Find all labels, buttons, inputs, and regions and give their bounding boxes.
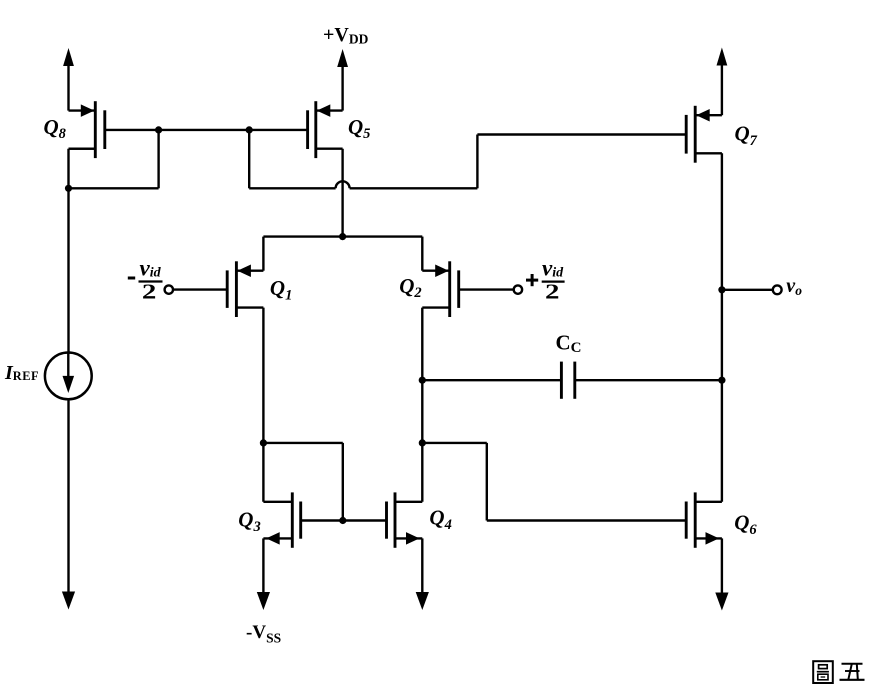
transistor Q4 (NMOS) <box>387 492 423 547</box>
caption character 五 <box>842 663 863 665</box>
wire Q6 gate jog horizontal to gate bar <box>487 519 686 521</box>
junction dot output node vo <box>718 286 725 293</box>
power +VDD arrow above Q7 <box>717 48 728 66</box>
wire CC right <box>575 379 722 381</box>
transistor Q5 (PMOS) <box>308 101 343 158</box>
junction dot Q1/Q3 drain node <box>260 439 267 446</box>
label -vid/2 (fraction bar) <box>139 280 163 282</box>
label +vid/2 (plus sign) <box>526 279 538 282</box>
wire tail rail <box>263 235 422 237</box>
wire Q1 gate lead <box>173 288 227 290</box>
wire Q6 gate jog horizontal upper <box>422 442 487 444</box>
terminal open circle -vid/2 input <box>165 285 173 293</box>
junction dot bias line right <box>246 126 253 133</box>
transistor Q3 (NMOS) <box>263 492 300 547</box>
wire Q1 source stub <box>262 237 264 271</box>
wire bias drop from gate line <box>248 130 250 188</box>
power +VDD arrow above Q5 <box>337 49 348 67</box>
wire Q3 diode jog vertical <box>342 443 344 521</box>
transistor Q2 (PMOS) <box>422 261 458 317</box>
wire bias jog horizontal right of hop <box>350 187 478 189</box>
label -vid/2 (minus sign) <box>128 277 135 280</box>
junction dot bias line left <box>155 126 162 133</box>
junction dot tail node <box>339 233 346 240</box>
wire output column Q7 drain to Q6 drain <box>721 153 723 502</box>
wire Q3 source down to -VSS arrow <box>262 538 264 594</box>
transistor Q6 (NMOS) <box>686 492 722 547</box>
wire Q8 diode-connection stub down <box>157 130 159 188</box>
wire Q8 drain lead extension <box>69 147 96 149</box>
junction dot Q2 drain at Q6 gate jog <box>419 439 426 446</box>
wire IREF internal lead <box>67 353 69 378</box>
wire Q4 source down to -VSS arrow <box>421 538 423 594</box>
junction dot on Q3/Q4 gate line <box>339 517 346 524</box>
power +VDD arrow above Q8 <box>63 48 74 66</box>
wire CC left <box>422 379 561 381</box>
wire Q5 drain down to tail node <box>341 149 343 237</box>
wire Q2 gate lead <box>459 288 514 290</box>
wire left rail lower (IREF to -VSS arrow) <box>67 398 69 594</box>
junction dot left rail diode connection <box>65 185 72 192</box>
wire Q1 drain down to Q3 drain <box>262 308 264 502</box>
label +vid/2 (fraction bar) <box>542 281 565 283</box>
capacitor CC plates <box>560 362 563 399</box>
junction dot Q2 drain at CC <box>419 377 426 384</box>
wire Q8 diode-connection horizontal <box>69 187 159 189</box>
wire bias jog horizontal left of hop <box>249 187 335 189</box>
transistor Q8 (PMOS) <box>69 101 105 158</box>
junction dot CC right <box>718 377 725 384</box>
svg-text:2: 2 <box>545 280 559 303</box>
wire Q2 source stub <box>421 237 423 271</box>
transistor Q7 (PMOS) <box>686 106 722 163</box>
wire left rail upper (Q8 drain to IREF) <box>67 149 69 354</box>
wire Q3 diode jog horizontal <box>263 442 342 444</box>
wire Q6 source down to -VSS arrow <box>721 538 723 594</box>
wire gate line Q3 to Q4 <box>301 519 387 521</box>
wire Q6 gate jog vertical <box>486 443 488 521</box>
caption character 圖 <box>813 661 833 683</box>
wire bias line to Q7 gate <box>477 133 686 135</box>
terminal open circle vo <box>773 285 782 294</box>
wire crossover hop over Q5 drain <box>336 181 350 188</box>
current source IREF (circle with down arrow) <box>45 353 92 400</box>
wire gate bias line Q8 to Q5 <box>105 129 308 131</box>
wire vo stub <box>722 289 773 291</box>
terminal open circle +vid/2 input <box>514 285 522 293</box>
wire Q2 drain down to Q4 drain <box>421 308 423 502</box>
wire bias rise to Q7 gate level <box>476 135 478 189</box>
svg-text:2: 2 <box>142 280 156 303</box>
transistor Q1 (PMOS) <box>227 261 263 317</box>
